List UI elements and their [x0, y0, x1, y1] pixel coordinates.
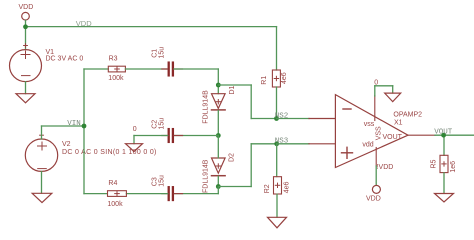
svg-text:VIN: VIN [67, 120, 81, 128]
wire VDD pin to supply [375, 166, 377, 185]
junction bottom node D2/C3 [216, 184, 221, 189]
wire NS2 to op-amp minus input [277, 118, 310, 120]
pin op-amp VSS (top) [374, 96, 376, 121]
op-amp U X1 OPAMP2 [335, 95, 408, 168]
supply symbol VDD at op-amp [366, 185, 381, 202]
junction at VDD supply [23, 24, 28, 29]
voltage source V2 [25, 133, 57, 171]
svg-text:4e6: 4e6 [281, 72, 288, 84]
svg-text:1e6: 1e6 [450, 161, 457, 173]
ground 0 at C2 [126, 144, 143, 152]
wire net VDD: supply to V1 and top rail to R1 [26, 20, 277, 70]
wire C1 to D1 node [174, 69, 218, 94]
svg-text:15u: 15u [159, 118, 166, 130]
voltage source V1 [10, 44, 42, 82]
diode D2 [212, 158, 226, 176]
svg-text:C2: C2 [152, 120, 159, 129]
svg-text:R4: R4 [108, 180, 117, 187]
svg-text:R2: R2 [264, 184, 271, 193]
capacitor C2 [169, 129, 173, 142]
wire mid node to D2 and D2 to bottom node [217, 136, 219, 187]
svg-text:D2: D2 [228, 153, 235, 162]
svg-text:VOUT: VOUT [383, 134, 403, 141]
svg-text:4e6: 4e6 [283, 182, 290, 194]
wire R1 to NS2 [276, 87, 278, 119]
junction VIN [82, 124, 87, 129]
wire V1 to ground [25, 82, 27, 94]
pin op-amp VDD (bottom) [375, 148, 377, 167]
capacitor C3 [169, 187, 173, 200]
svg-text:VDD: VDD [76, 19, 92, 28]
svg-text:!VDD: !VDD [377, 164, 394, 171]
supply symbol VDD top-left [19, 4, 34, 20]
pin op-amp inverting input [309, 118, 335, 120]
svg-text:0: 0 [133, 126, 137, 133]
svg-text:VDD: VDD [366, 195, 381, 202]
capacitor C1 [169, 63, 173, 76]
junction NS2 [274, 116, 279, 121]
svg-text:C3: C3 [152, 177, 159, 186]
ground under R5 [435, 194, 454, 203]
diode D1 [212, 94, 226, 110]
wire D1 to mid node [217, 111, 219, 136]
svg-text:C1: C1 [152, 49, 159, 58]
svg-text:X1: X1 [394, 119, 403, 126]
wire net VIN: V2 top to junction and vertical bus x=84 [42, 69, 109, 194]
svg-text:R5: R5 [431, 159, 438, 168]
pin op-amp non-inverting input [309, 143, 335, 145]
wire C3 to R4 [126, 193, 167, 195]
svg-text:DC 0 AC 0 SIN(0 1 100 0 0): DC 0 AC 0 SIN(0 1 100 0 0) [62, 149, 157, 156]
svg-text:D1: D1 [229, 85, 236, 94]
wire C2 to ground 0 [134, 136, 168, 144]
svg-text:100k: 100k [107, 201, 123, 208]
svg-text:DC 3V AC 0: DC 3V AC 0 [46, 56, 84, 63]
ground 0 at op-amp top [385, 93, 401, 102]
svg-text:vdd: vdd [362, 142, 373, 149]
svg-text:FDLL914B: FDLL914B [202, 90, 209, 124]
pin op-amp output [408, 134, 435, 136]
wire R5 to ground [443, 173, 445, 194]
svg-text:VOUT: VOUT [434, 128, 453, 136]
svg-text:FDLL914B: FDLL914B [202, 159, 209, 193]
svg-text:100k: 100k [108, 75, 124, 82]
ground under V2 [32, 193, 52, 202]
svg-text:VDD: VDD [19, 4, 34, 11]
svg-text:vss: vss [364, 121, 375, 128]
resistor R2 [274, 177, 282, 194]
resistor R3 [108, 66, 125, 72]
svg-text:R3: R3 [109, 55, 118, 62]
wire NS3 to R2 [276, 144, 278, 177]
resistor R1 [272, 70, 280, 87]
svg-text:0: 0 [374, 80, 378, 87]
resistor R4 [108, 191, 127, 197]
wire NS3 to op-amp plus input [277, 143, 309, 145]
wire bottom node to C3 and to NS3 riser [174, 144, 277, 194]
wire node to NS2 [218, 85, 276, 119]
junction node C1/D1/R1 branch [216, 83, 221, 88]
wire V2 to ground [41, 172, 43, 194]
wire VSS pin to ground 0 [375, 86, 393, 96]
wire R3 to C1 [125, 68, 167, 70]
svg-text:V2: V2 [62, 141, 71, 148]
svg-text:OPAMP2: OPAMP2 [393, 112, 422, 119]
svg-text:15u: 15u [159, 175, 166, 187]
wire net VOUT [435, 135, 474, 155]
ground under R2 [268, 217, 287, 228]
junction VOUT [441, 133, 446, 138]
svg-text:R1: R1 [261, 76, 268, 85]
ground under V1 [16, 94, 35, 103]
svg-text:15u: 15u [159, 47, 166, 59]
resistor R5 [440, 155, 448, 172]
junction mid node D1/D2/C2 [216, 133, 221, 138]
junction NS3 [274, 141, 279, 146]
wire R2 to ground [276, 194, 278, 217]
svg-text:VSS: VSS [375, 126, 382, 140]
wire mid node to C2 [174, 135, 218, 137]
